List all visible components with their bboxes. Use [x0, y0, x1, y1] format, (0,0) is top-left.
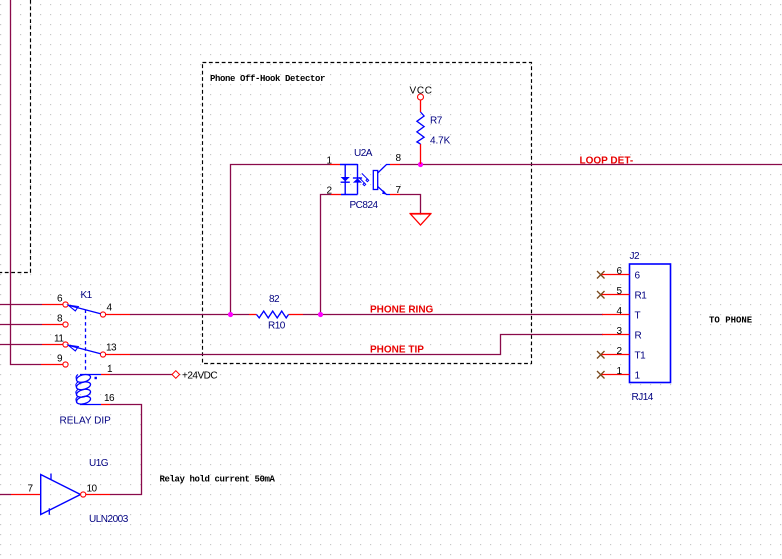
optocoupler U2A PC824 [327, 148, 402, 211]
U1G triangle [41, 475, 81, 515]
K1 switch blade 2 [68, 345, 100, 354]
svg-text:PHONE RING: PHONE RING [370, 305, 434, 316]
svg-text:R7: R7 [430, 116, 443, 127]
svg-text:VCC: VCC [410, 86, 433, 97]
ground symbol [410, 214, 432, 226]
wire LOOP DET- net [400, 164, 782, 166]
U2A LED frame [340, 164, 358, 195]
U2A collector [378, 165, 390, 174]
junction node phone ring / pin2 branch [318, 312, 323, 317]
svg-text:Relay hold current 50mA: Relay hold current 50mA [160, 475, 276, 485]
connector J2 RJ14 [597, 251, 671, 403]
U2A emitter [378, 187, 390, 195]
svg-text:+24VDC: +24VDC [182, 371, 217, 382]
J2 pin 1 [601, 374, 630, 376]
svg-text:PC824: PC824 [350, 200, 379, 211]
svg-text:T: T [635, 311, 641, 322]
svg-text:R10: R10 [268, 321, 286, 332]
J2 pin 6 [601, 274, 630, 276]
power terminator +24VDC [172, 371, 180, 379]
dashed box partial top-left [0, 0, 31, 273]
svg-text:ULN2003: ULN2003 [89, 514, 129, 525]
wire opto pin2 branch down to phone ring [321, 195, 332, 315]
wire opto pin7 to ground [400, 195, 421, 214]
wire PHONE RING net right segment [303, 314, 603, 316]
svg-text:R1: R1 [635, 291, 648, 302]
wire relay coil pin16 to U1G output [110, 405, 142, 495]
U2A LED 2 [353, 177, 362, 179]
wire PHONE RING net left segment [130, 314, 249, 316]
K1 pin 11 stub [42, 344, 63, 346]
K1 coil pin 16 stub [101, 404, 110, 406]
J2 pin 4 [602, 314, 630, 316]
U2A light arrows [359, 173, 369, 185]
svg-text:RELAY DIP: RELAY DIP [60, 416, 112, 427]
K1 coil pin 1 stub [101, 374, 110, 376]
svg-text:U1G: U1G [89, 458, 109, 469]
svg-text:LOOP DET-: LOOP DET- [580, 156, 634, 167]
U2A pin 8 stub [390, 164, 400, 166]
U2A pin 7 stub [390, 194, 400, 196]
svg-text:R: R [635, 331, 642, 342]
svg-text:RJ14: RJ14 [632, 392, 654, 403]
svg-text:16: 16 [104, 393, 115, 404]
K1 pin 13 stub [100, 352, 105, 357]
K1 pin 6 stub [42, 304, 63, 306]
svg-text:82: 82 [269, 294, 280, 305]
J2 pin 3 [602, 334, 630, 336]
U2A pin 2 stub [331, 194, 341, 196]
svg-text:4.7K: 4.7K [430, 136, 451, 147]
wire to K1 pin 6 [0, 304, 42, 306]
junction node phone ring / pin1 branch [228, 312, 233, 317]
IC U1G ULN2003 [11, 458, 129, 525]
svg-text:U2A: U2A [354, 148, 373, 159]
K1 pin 9 stub [41, 364, 63, 366]
U2A transistor base bar [373, 171, 377, 190]
J2 pin 5 [601, 294, 630, 296]
K1 polarity dot [95, 377, 97, 379]
svg-text:13: 13 [106, 343, 117, 354]
svg-text:10: 10 [87, 484, 98, 495]
svg-text:PHONE TIP: PHONE TIP [370, 345, 424, 356]
U2A pin 1 stub [330, 164, 340, 166]
K1 pin 4 stub [100, 312, 105, 317]
U2A LED 1 [341, 177, 350, 181]
svg-text:TO PHONE: TO PHONE [709, 316, 753, 326]
svg-text:J2: J2 [630, 251, 641, 262]
wire PHONE TIP net [130, 335, 603, 355]
U1G input pin 7 [11, 494, 41, 496]
wire into U1G input [0, 494, 11, 496]
wire to K1 pin 11 [0, 344, 42, 346]
U1G inverter bubble [81, 492, 86, 497]
resistor R10 [249, 294, 303, 332]
U1G output pin 10 [86, 494, 110, 496]
wire to K1 pin 8 [0, 324, 42, 326]
K1 linkage dashed [85, 310, 87, 373]
svg-text:Phone Off-Hook Detector: Phone Off-Hook Detector [210, 74, 325, 84]
K1 coil [76, 373, 101, 405]
K1 switch blade 1 [68, 305, 100, 314]
wire opto pin1 branch down to phone ring [231, 165, 331, 315]
svg-text:T1: T1 [635, 351, 647, 362]
J2 pin 2 [601, 354, 630, 356]
svg-text:11: 11 [54, 334, 64, 345]
resistor R7 [417, 100, 451, 164]
svg-text:K1: K1 [81, 290, 93, 301]
relay K1 [41, 290, 130, 427]
junction node R7 / loop det [418, 162, 423, 167]
wire left bus vertical to K1 pin 9 [11, 0, 42, 365]
K1 pin 8 stub [42, 324, 63, 326]
wire relay coil pin1 to +24VDC [110, 374, 172, 376]
power terminator VCC [418, 94, 424, 100]
dashed box Phone Off-Hook Detector [203, 63, 532, 364]
